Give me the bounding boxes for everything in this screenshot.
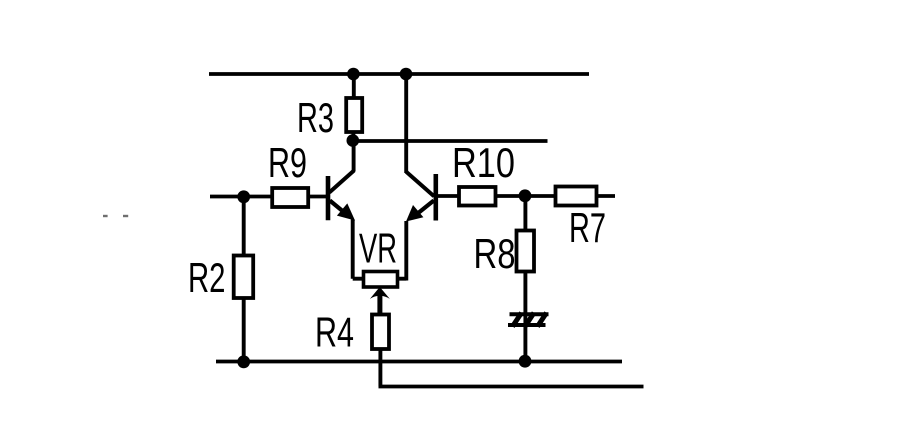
- wire lower output line: [379, 385, 644, 389]
- wire VR right lead: [398, 277, 407, 281]
- stray mark dash 2: [123, 215, 128, 217]
- wire R8 top lead: [523, 196, 527, 231]
- ground chassis symbol hatch 2: [525, 313, 534, 327]
- resistor R2: [234, 256, 254, 299]
- resistor R4: [372, 315, 389, 350]
- wire middle rail from R3 node: [353, 139, 547, 143]
- wire Q2 base to R10: [437, 194, 460, 198]
- wire top supply rail: [209, 72, 589, 76]
- resistor R9: [272, 188, 308, 207]
- transistor Q1 emitter diagonal: [330, 201, 348, 216]
- node junction dot left input / R2: [237, 190, 250, 203]
- wire Q1 emitter vertical: [351, 220, 355, 279]
- wire VR wiper stem: [377, 295, 382, 315]
- resistor R3: [346, 98, 362, 132]
- wire Q2 collector vertical: [404, 74, 408, 173]
- wire Q1 base from R9: [308, 195, 327, 199]
- wire VR left lead: [353, 277, 364, 281]
- svg-text:R7: R7: [569, 204, 606, 251]
- wire R8 bottom lead to bottom rail: [523, 272, 527, 362]
- node junction dot on top rail above Q2 collector: [400, 68, 413, 81]
- wire Q1 collector diagonal: [329, 171, 354, 193]
- resistor R8: [517, 231, 535, 272]
- ground chassis symbol top bar: [510, 312, 549, 316]
- wire left input: [210, 195, 273, 199]
- svg-text:R9: R9: [268, 139, 307, 186]
- ground chassis symbol hatch 1: [513, 313, 522, 327]
- wire R10 to R7: [496, 194, 556, 198]
- wire R3 top lead: [352, 74, 356, 99]
- wire bottom rail: [216, 360, 622, 364]
- wire R2 top lead: [242, 197, 246, 257]
- resistor R7: [556, 187, 597, 206]
- transistor Q2 base bar: [433, 174, 438, 221]
- svg-text:R8: R8: [474, 230, 516, 277]
- node junction dot below R3: [347, 134, 360, 147]
- node junction dot R2 bottom: [237, 355, 250, 368]
- wire R3 bottom lead: [351, 132, 355, 141]
- stray mark dash 1: [103, 215, 108, 217]
- svg-text:R3: R3: [297, 94, 334, 141]
- potentiometer VR body: [364, 272, 398, 288]
- wire R4 bottom lead: [378, 349, 382, 387]
- svg-text:R4: R4: [315, 308, 354, 355]
- node junction dot ground / bottom rail: [519, 355, 532, 368]
- transistor Q1 base bar: [326, 176, 331, 220]
- transistor Q2 emitter diagonal: [412, 201, 434, 219]
- wire R7 right lead: [597, 194, 616, 198]
- wire R2 bottom lead: [242, 298, 246, 362]
- transistor Q1 emitter arrowhead: [337, 203, 355, 220]
- node junction dot R8 top: [519, 189, 532, 202]
- wire Q2 emitter vertical: [404, 221, 408, 281]
- wire Q2 collector diagonal: [406, 172, 434, 196]
- potentiometer VR wiper arrowhead: [370, 287, 390, 299]
- node junction dot on top rail above R3: [347, 68, 360, 81]
- svg-text:R10: R10: [452, 139, 515, 186]
- ground chassis symbol hatch 3: [538, 313, 547, 327]
- svg-text:VR: VR: [359, 225, 397, 272]
- svg-text:R2: R2: [188, 254, 226, 301]
- transistor Q2 emitter arrowhead: [406, 205, 423, 222]
- resistor R10: [459, 187, 496, 206]
- wire Q1 collector vertical: [352, 141, 356, 172]
- ground chassis symbol bottom bar: [508, 323, 546, 327]
